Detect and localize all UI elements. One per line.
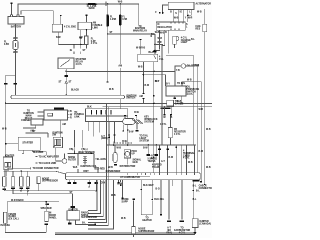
label bottom mid xyxy=(111,195,126,220)
svg-text:B-L: B-L xyxy=(196,190,200,192)
svg-text:W-B: W-B xyxy=(206,129,211,131)
label right column ticks xyxy=(199,109,211,169)
svg-text:SYSTEM: SYSTEM xyxy=(139,140,149,142)
wire bus under relays xyxy=(58,44,84,46)
svg-text:W-B: W-B xyxy=(2,128,7,130)
svg-text:SUPPRESSOR: SUPPRESSOR xyxy=(42,181,58,183)
wire rail right drops xyxy=(118,180,120,182)
wire blk-red right xyxy=(32,150,46,155)
spark plug wires nested xyxy=(88,103,114,228)
svg-text:BLK-YEL: BLK-YEL xyxy=(154,199,165,201)
fusible link bar AM1 xyxy=(106,4,116,34)
svg-text:W-B: W-B xyxy=(197,12,202,14)
label mid verticals xyxy=(109,81,159,91)
node bus1 x154 xyxy=(153,71,155,73)
wires FB drops xyxy=(69,130,87,154)
svg-text:B-L: B-L xyxy=(82,223,86,225)
wire x158 drop xyxy=(161,103,163,144)
svg-text:TO DOOR CONNECTOR: TO DOOR CONNECTOR xyxy=(33,168,59,170)
svg-text:W-B R-B: W-B R-B xyxy=(136,47,146,49)
svg-text:HEATER: HEATER xyxy=(142,219,152,222)
wire spark top runs xyxy=(3,167,65,174)
svg-text:W-B: W-B xyxy=(174,18,179,20)
svg-text:YEL-GRN: YEL-GRN xyxy=(95,159,106,161)
wire battery negative up xyxy=(11,3,13,15)
svg-text:AM: AM xyxy=(118,64,122,67)
svg-text:FILTER: FILTER xyxy=(68,160,76,162)
node bus dots xyxy=(73,44,75,46)
wire left main vertical xyxy=(107,34,109,82)
label drop wires xyxy=(151,149,196,164)
svg-text:USA): USA) xyxy=(166,231,172,234)
svg-text:BLK-RED: BLK-RED xyxy=(33,152,44,154)
connector ST stub xyxy=(81,45,86,55)
svg-text:STARTER: STARTER xyxy=(22,141,33,144)
dashed wire B-W xyxy=(114,141,133,144)
wire to gauge area xyxy=(166,56,194,66)
connector IG stub xyxy=(70,45,74,55)
main bus y145 xyxy=(106,144,160,146)
wire coil bus xyxy=(68,152,95,155)
wire left vertical to igniter xyxy=(5,103,7,157)
bottom double bus xyxy=(55,233,195,235)
svg-text:AM: AM xyxy=(139,95,143,98)
wire drops bus to connector xyxy=(159,145,194,173)
wire coil down xyxy=(73,154,78,176)
right drops from bus145 xyxy=(147,145,163,169)
starter box S1 xyxy=(58,58,87,69)
wire relay feed vertical xyxy=(133,4,148,54)
svg-text:A-T: A-T xyxy=(151,157,155,160)
svg-text:W-B: W-B xyxy=(160,33,165,35)
bracket to a-c amplifier xyxy=(36,156,60,159)
wires igniter outputs xyxy=(68,220,96,225)
wire x197 xyxy=(196,67,199,182)
long connector rail top xyxy=(11,95,125,99)
wire bus y106.7 xyxy=(103,106,213,108)
noise suppressor bottom xyxy=(122,199,155,237)
text block to-ignition xyxy=(21,111,36,123)
wire relay2 right drop x154 xyxy=(153,62,155,179)
condenser xyxy=(106,145,121,173)
wire starter down xyxy=(59,69,80,96)
svg-text:FB(-): FB(-) xyxy=(69,149,75,151)
svg-text:W-B: W-B xyxy=(73,167,78,169)
fb resistor right xyxy=(164,106,187,145)
svg-text:TO A/C AMPLIFIER: TO A/C AMPLIFIER xyxy=(39,156,60,159)
wire oil switch top right xyxy=(182,82,201,181)
connector strip pins xyxy=(159,173,194,182)
svg-text:BLK-RED: BLK-RED xyxy=(95,169,106,171)
wire plug bottom bus A xyxy=(4,186,96,191)
node top bus junction 2 xyxy=(119,3,121,5)
wire y74.6 to engine box xyxy=(143,75,165,86)
oil gauge circle xyxy=(181,64,199,68)
svg-text:BLK: BLK xyxy=(87,107,92,109)
svg-text:4 CYL: 4 CYL xyxy=(174,133,181,136)
svg-text:W-R: W-R xyxy=(158,38,163,40)
key contact box xyxy=(52,132,63,147)
wire ST bus xyxy=(108,32,155,34)
svg-text:A-T: A-T xyxy=(161,160,165,163)
svg-text:GRN: GRN xyxy=(117,184,122,186)
node x154 dot2 xyxy=(153,95,155,97)
wire plug bottom bus B xyxy=(13,189,73,211)
wire AM2 ST2 lines xyxy=(26,131,48,137)
node bus145 dots xyxy=(113,144,115,146)
svg-text:4 CYL: 4 CYL xyxy=(160,123,167,126)
svg-text:B-L: B-L xyxy=(193,199,197,201)
igniter box left xyxy=(3,156,14,176)
svg-text:BATTERY: BATTERY xyxy=(11,25,22,28)
radio feed line xyxy=(7,199,59,205)
wire branch to x155 xyxy=(154,34,163,54)
wires below connector strip xyxy=(156,180,182,220)
connector strip box xyxy=(86,107,128,122)
igniter box bottom xyxy=(67,206,97,220)
label fb ticks xyxy=(160,117,173,126)
svg-text:W-B: W-B xyxy=(117,148,122,150)
node ST junction xyxy=(107,33,109,35)
node top bus junction 1 xyxy=(107,3,109,5)
wire left drop pair xyxy=(4,75,17,103)
antenna resistor left xyxy=(1,202,19,233)
svg-text:Y-B: Y-B xyxy=(176,70,180,72)
text to tail light xyxy=(139,135,149,143)
wire starter relay left xyxy=(6,143,19,145)
wire oil switch ground xyxy=(161,96,183,109)
check connector xyxy=(192,180,213,219)
svg-text:CONDENSER: CONDENSER xyxy=(106,171,121,173)
svg-text:TRANS: TRANS xyxy=(148,160,156,163)
wire relay down to bus xyxy=(56,32,61,45)
oil pressure switch box xyxy=(166,83,200,96)
svg-text:W-B: W-B xyxy=(188,162,193,164)
svg-text:MAIN RELAY: MAIN RELAY xyxy=(133,29,148,32)
svg-text:W-R RADIO: W-R RADIO xyxy=(11,199,24,202)
wire key cyl down xyxy=(123,125,135,146)
svg-text:B-L: B-L xyxy=(193,185,197,187)
ignition switch box xyxy=(38,108,73,138)
engine connector band xyxy=(66,173,201,180)
spark plug 3 xyxy=(19,171,23,189)
svg-text:SUPPRESSOR: SUPPRESSOR xyxy=(81,217,97,219)
svg-text:SUPPRESSOR: SUPPRESSOR xyxy=(138,231,154,233)
accessory box right xyxy=(167,100,184,106)
label oil area xyxy=(166,80,192,86)
svg-text:ALTERNATOR: ALTERNATOR xyxy=(196,3,212,6)
svg-text:4 CYL: 4 CYL xyxy=(187,93,194,96)
wires alternator terminals xyxy=(155,5,191,22)
svg-text:4 CYL: 4 CYL xyxy=(183,157,190,160)
svg-text:LIGHT: LIGHT xyxy=(181,42,188,44)
starter relay box 2 xyxy=(18,137,40,150)
fusible link FL main xyxy=(86,2,106,11)
ignition main relay box xyxy=(52,15,76,32)
svg-text:TO IGN: TO IGN xyxy=(177,83,185,85)
svg-text:4 CYL: 4 CYL xyxy=(91,42,98,45)
wire battery positive to top bus xyxy=(18,4,139,15)
svg-text:W-B: W-B xyxy=(118,2,123,4)
svg-text:W-R: W-R xyxy=(188,18,193,20)
noise filter circle xyxy=(56,148,76,164)
key switch oval xyxy=(123,112,158,131)
svg-text:CONNECTOR: CONNECTOR xyxy=(199,188,212,190)
svg-text:TO CLOCK 2WD: TO CLOCK 2WD xyxy=(39,163,57,165)
spark plug 2 xyxy=(11,171,15,189)
svg-text:B-Y: B-Y xyxy=(155,81,159,83)
svg-text:IG: IG xyxy=(70,50,73,52)
wire radio bottom xyxy=(5,231,46,233)
ignition main relay box 2 xyxy=(138,51,165,62)
svg-text:W-B: W-B xyxy=(155,32,160,34)
node x154 y103 xyxy=(153,103,155,105)
svg-text:B-L: B-L xyxy=(191,39,195,41)
svg-text:IG: IG xyxy=(180,12,183,14)
svg-text:W-B: W-B xyxy=(109,89,114,91)
svg-text:RES: RES xyxy=(195,29,200,31)
connector box mid xyxy=(108,122,115,146)
svg-text:W-B: W-B xyxy=(111,195,116,197)
wire yel-grn right xyxy=(94,154,106,173)
svg-text:W-B: W-B xyxy=(199,109,204,111)
wire bus145 right extension xyxy=(160,144,196,146)
wires AM fuse down xyxy=(79,30,83,45)
ignition coil symbol xyxy=(81,156,98,168)
svg-text:BLACK: BLACK xyxy=(71,89,79,92)
charge lamp circle xyxy=(173,36,196,48)
battery B1 xyxy=(8,15,24,29)
svg-text:(EX CAL): (EX CAL) xyxy=(9,218,19,221)
resistor fusible link small xyxy=(85,29,98,48)
label ignition switch xyxy=(126,95,137,99)
svg-text:HIGH TENSION: HIGH TENSION xyxy=(78,152,95,154)
AM fuse box xyxy=(78,15,103,30)
svg-text:0.5B: 0.5B xyxy=(122,19,127,21)
label alternator pins xyxy=(170,12,192,20)
svg-text:W-B: W-B xyxy=(108,167,113,169)
label bus145 wires xyxy=(117,148,149,150)
svg-text:DISTRIBUTOR: DISTRIBUTOR xyxy=(120,166,136,168)
to labels bottom right xyxy=(166,220,172,234)
igniter canada box xyxy=(192,219,211,235)
wire gauge left xyxy=(175,66,181,86)
svg-text:B-O: B-O xyxy=(156,189,160,191)
svg-text:4 CYL: 4 CYL xyxy=(179,231,186,234)
svg-text:AT CARBURETOR: AT CARBURETOR xyxy=(120,176,140,179)
text right of igsw xyxy=(74,112,84,119)
key cylinder box xyxy=(23,119,43,133)
svg-text:CYL: CYL xyxy=(159,59,164,61)
wire starter relay bottom stub xyxy=(22,150,23,154)
svg-text:REGULATOR: REGULATOR xyxy=(157,26,172,29)
node y103 xyxy=(5,103,7,105)
svg-text:LINK: LINK xyxy=(93,27,99,29)
wire relay2 left drop xyxy=(138,62,144,93)
spark plug 1 xyxy=(2,171,6,190)
svg-text:MAIN: MAIN xyxy=(89,7,95,10)
connector AM inline xyxy=(139,93,144,103)
svg-text:SWITCH: SWITCH xyxy=(126,98,135,100)
fusible link FL 0.5B left xyxy=(4,24,18,75)
labels blk-wht mid xyxy=(117,180,165,215)
svg-text:W-B: W-B xyxy=(121,218,126,220)
speaker resistor right xyxy=(40,202,57,233)
wire drops from block xyxy=(88,122,108,141)
svg-text:AM: AM xyxy=(62,123,66,126)
svg-text:SYSTEM: SYSTEM xyxy=(144,121,154,123)
alternator box xyxy=(168,2,211,13)
distributor pickup xyxy=(120,150,142,168)
noise suppressor 5 xyxy=(37,177,58,184)
svg-text:W-B: W-B xyxy=(187,80,192,82)
svg-text:(CANADA): (CANADA) xyxy=(199,222,211,225)
svg-text:B-Y: B-Y xyxy=(166,84,170,86)
svg-text:W-B: W-B xyxy=(138,66,143,68)
bracket to a-c amp2 xyxy=(36,163,57,165)
label regulator pins xyxy=(155,24,188,34)
wire bus y103 xyxy=(6,102,212,104)
svg-text:GAUGE: GAUGE xyxy=(175,103,184,106)
svg-text:0.5B: 0.5B xyxy=(4,44,9,46)
IC regulator box xyxy=(156,22,185,30)
bus1 wire xyxy=(66,70,175,72)
svg-text:PANEL: PANEL xyxy=(49,216,57,219)
bracket to door connector xyxy=(0,0,1,1)
wires regulator down xyxy=(151,30,169,103)
svg-text:LINK: LINK xyxy=(74,117,80,119)
svg-text:4 CYL ENG: 4 CYL ENG xyxy=(64,26,76,29)
spark plug 4 xyxy=(26,171,30,189)
connector tick x107 xyxy=(107,82,109,83)
wire AM drop w label xyxy=(118,64,122,109)
fusible link bar AM2 xyxy=(119,4,128,64)
svg-text:W-B: W-B xyxy=(206,167,211,169)
spark rail drops with labels xyxy=(67,180,105,192)
svg-text:(4WD): (4WD) xyxy=(101,137,108,140)
svg-text:SUPP: SUPP xyxy=(122,201,129,203)
heater fork xyxy=(141,215,152,222)
wire battery to relay xyxy=(21,11,53,25)
charge resistor right xyxy=(195,9,206,185)
wire gauge right xyxy=(186,66,194,145)
svg-text:1.25B: 1.25B xyxy=(110,19,116,21)
svg-text:UP: UP xyxy=(132,153,136,155)
svg-text:4 CYL: 4 CYL xyxy=(76,63,83,66)
svg-text:GEN: GEN xyxy=(133,162,138,164)
